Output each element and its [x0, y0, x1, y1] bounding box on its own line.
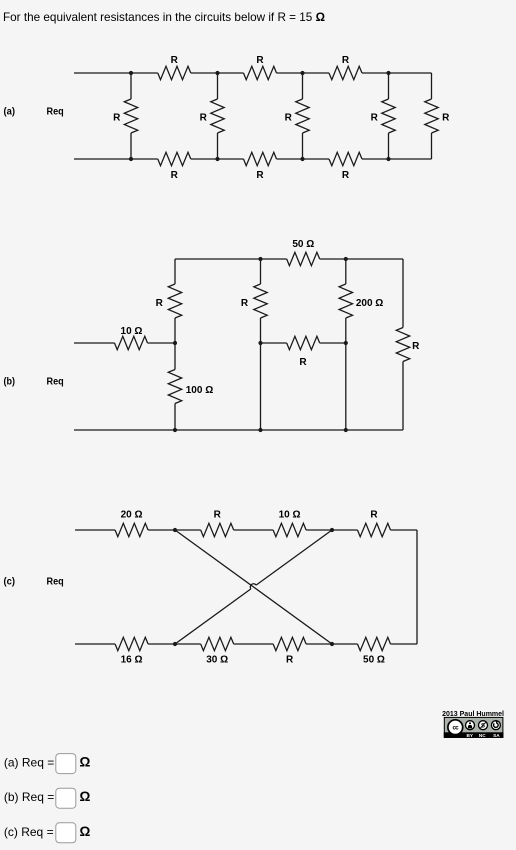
resistor R (a) vertical #4 — [382, 99, 395, 133]
svg-text:R: R — [370, 509, 378, 520]
node a top #4 — [386, 71, 390, 75]
node a top #1 — [129, 71, 133, 75]
CC license badge background — [444, 717, 503, 737]
wire b right R bottom stub — [402, 362, 404, 431]
resistor R (c) top #1 — [201, 523, 234, 536]
svg-text:10 Ω: 10 Ω — [279, 509, 301, 520]
wire b mid rail right — [320, 342, 346, 344]
svg-text:R: R — [299, 357, 307, 368]
resistor R (b) middle horizontal — [287, 336, 320, 349]
resistor 16ohm (c) bottom — [115, 637, 148, 650]
svg-text:(a): (a) — [4, 105, 16, 117]
svg-text:Req: Req — [47, 105, 64, 117]
svg-text:R: R — [412, 341, 420, 352]
resistor R (a) right vertical — [425, 99, 438, 133]
wire a bottom segment 1a — [131, 158, 158, 160]
wire a vertical bottom stub #3 — [302, 133, 304, 159]
svg-text:Ω: Ω — [80, 824, 91, 839]
svg-text:(b): (b) — [4, 375, 16, 387]
svg-text:50 Ω: 50 Ω — [363, 655, 385, 666]
resistor R (a) bottom #3 — [329, 152, 362, 165]
node b top x345 — [344, 257, 348, 261]
wire b 100ohm bottom stub — [174, 404, 176, 431]
wire a vertical bottom stub #2 — [217, 133, 219, 159]
wire b mid rail left — [261, 342, 287, 344]
wire a bottom segment 3a — [303, 158, 330, 160]
svg-text:NC: NC — [479, 733, 486, 738]
svg-text:R: R — [342, 170, 350, 181]
node c top right — [330, 528, 334, 532]
wire a vertical top stub #3 — [302, 73, 304, 99]
NC icon circle — [479, 721, 488, 730]
svg-text:Ω: Ω — [80, 789, 91, 804]
svg-text:R: R — [371, 113, 379, 124]
svg-text:R: R — [171, 170, 179, 181]
resistor R (a) bottom #1 — [158, 152, 191, 165]
wire a vertical top stub #4 — [388, 73, 390, 99]
wire a top segment 2b — [277, 72, 303, 74]
CC badge black strip — [444, 732, 504, 738]
node b top x260 — [258, 257, 262, 261]
svg-text:100 Ω: 100 Ω — [186, 385, 213, 396]
SA icon circle — [491, 721, 500, 730]
svg-text:R: R — [241, 298, 249, 309]
wire c crossover hop — [250, 584, 256, 589]
wire b top rail right — [320, 258, 403, 260]
wire c diagonal descending — [175, 530, 332, 644]
svg-text:Req: Req — [47, 375, 64, 387]
wire b column x345 to bottom — [345, 343, 347, 430]
wire c top seg3 — [234, 529, 273, 531]
BY icon circle — [466, 721, 475, 730]
wire b vert R2 bottom stub — [260, 318, 262, 343]
wire c bottom seg3 — [234, 643, 273, 645]
wire b bottom rail — [74, 429, 403, 431]
wire a vertical bottom stub #1 — [130, 133, 132, 159]
resistor R (a) vertical #2 — [211, 99, 224, 133]
resistor 50ohm (c) bottom — [358, 637, 391, 650]
resistor 10ohm (b) — [115, 336, 148, 349]
svg-text:30 Ω: 30 Ω — [206, 655, 228, 666]
SA icon arrow — [494, 723, 499, 728]
wire b vert R2 top stub — [260, 259, 262, 284]
wire c diagonal ascending upper part — [256, 530, 332, 585]
wire b 200ohm bottom stub — [345, 318, 347, 343]
svg-text:R: R — [256, 170, 264, 181]
node b bottom x175 — [173, 428, 177, 432]
wire c diagonal ascending lower part — [175, 589, 251, 644]
svg-text:10 Ω: 10 Ω — [121, 326, 143, 337]
node a bottom #2 — [215, 157, 219, 161]
wire a bottom-right segment — [389, 158, 432, 160]
resistor R (b) right vertical — [396, 328, 409, 362]
wire a top segment 3a — [303, 72, 330, 74]
wire c top seg4 — [306, 529, 357, 531]
svg-text:BY: BY — [467, 733, 474, 738]
resistor R (b) #2 vertical — [254, 284, 267, 318]
wire a top segment 3b — [362, 72, 389, 74]
resistor 100ohm (b) — [168, 370, 181, 404]
resistor R (b) #1 vertical — [168, 284, 181, 318]
BY icon person — [469, 722, 471, 724]
svg-text:R: R — [113, 113, 121, 124]
node b bottom x260 — [258, 428, 262, 432]
wire c right vertical — [416, 530, 418, 644]
node a bottom #3 — [300, 157, 304, 161]
answer input box (b) — [56, 788, 76, 808]
node a top #2 — [215, 71, 219, 75]
node a top #3 — [300, 71, 304, 75]
svg-text:50 Ω: 50 Ω — [292, 239, 314, 250]
resistor R (a) bottom #2 — [244, 152, 277, 165]
wire c bottom seg5 — [391, 643, 418, 645]
wire b left input lead — [74, 342, 115, 344]
svg-text:(c) Req =: (c) Req = — [4, 825, 54, 839]
resistor 10ohm (c) top — [273, 523, 306, 536]
answer input box (a) — [56, 754, 76, 774]
wire a bottom segment 3b — [362, 158, 389, 160]
wire c top lead — [75, 529, 115, 531]
svg-text:R: R — [214, 509, 222, 520]
node c top left — [173, 528, 177, 532]
wire b vert R1 bottom stub — [174, 318, 176, 343]
wire b right R top stub — [402, 259, 404, 328]
node b bottom x345 — [344, 428, 348, 432]
node c bottom left — [173, 642, 177, 646]
wire a bottom segment 1b — [191, 158, 218, 160]
CC logo circle — [448, 720, 463, 735]
svg-text:20 Ω: 20 Ω — [121, 509, 143, 520]
svg-text:Ω: Ω — [80, 755, 91, 770]
svg-text:(a) Req =: (a) Req = — [4, 756, 54, 770]
node a bottom #4 — [386, 157, 390, 161]
svg-text:R: R — [171, 55, 179, 66]
node b mid x175 — [173, 341, 177, 345]
resistor R (a) top #2 — [244, 66, 277, 79]
wire b 200ohm top stub — [345, 259, 347, 284]
wire a top-left lead — [74, 72, 131, 74]
wire a right vertical top stub — [431, 73, 433, 99]
wire a bottom-left lead — [74, 158, 131, 160]
resistor R (a) vertical #1 — [124, 99, 137, 133]
svg-text:R: R — [256, 55, 264, 66]
svg-text:200 Ω: 200 Ω — [356, 298, 383, 309]
wire c top seg2 — [148, 529, 201, 531]
wire c top seg5 — [391, 529, 418, 531]
wire a top-right segment — [389, 72, 432, 74]
wire a top segment 1b — [191, 72, 218, 74]
wire a top segment 2a — [218, 72, 244, 74]
wire c bottom seg2 — [148, 643, 201, 645]
wire a bottom segment 2b — [277, 158, 303, 160]
svg-text:R: R — [442, 113, 450, 124]
node b mid x260 — [258, 341, 262, 345]
svg-text:16 Ω: 16 Ω — [121, 655, 143, 666]
svg-text:Req: Req — [47, 575, 64, 587]
svg-text:(b) Req =: (b) Req = — [4, 790, 54, 804]
resistor 50ohm (b) top — [287, 252, 320, 265]
svg-text:R: R — [342, 55, 350, 66]
svg-text:(c): (c) — [4, 575, 16, 587]
wire c bottom seg4 — [306, 643, 357, 645]
resistor 30ohm (c) bottom — [201, 637, 234, 650]
wire a vertical top stub #1 — [130, 73, 132, 99]
svg-text:For the equivalent resistances: For the equivalent resistances in the ci… — [3, 10, 325, 24]
svg-text:R: R — [156, 298, 164, 309]
resistor R (a) vertical #3 — [296, 99, 309, 133]
wire a bottom segment 2a — [218, 158, 244, 160]
node a bottom #1 — [129, 157, 133, 161]
wire a top segment 1a — [131, 72, 158, 74]
svg-text:R: R — [285, 113, 293, 124]
answer input box (c) — [56, 823, 76, 843]
wire b vert R1 top stub — [174, 259, 176, 284]
wire b top rail left — [175, 258, 287, 260]
svg-text:R: R — [286, 655, 294, 666]
wire b 100ohm top stub — [174, 343, 176, 370]
wire c bottom lead — [75, 643, 115, 645]
resistor R (a) top #3 — [329, 66, 362, 79]
resistor R (c) top right — [358, 523, 391, 536]
resistor 20ohm (c) top — [115, 523, 148, 536]
wire a vertical top stub #2 — [217, 73, 219, 99]
node c bottom right — [330, 642, 334, 646]
wire a vertical bottom stub #4 — [388, 133, 390, 159]
resistor R (a) top #1 — [158, 66, 191, 79]
svg-text:SA: SA — [493, 733, 500, 738]
wire b input to node — [148, 342, 176, 344]
wire a right vertical bottom stub — [431, 133, 433, 159]
wire b column x260 to bottom — [260, 343, 262, 430]
svg-text:R: R — [200, 113, 208, 124]
node b mid x345 — [344, 341, 348, 345]
resistor R (c) bottom — [273, 637, 306, 650]
resistor 200ohm (b) — [339, 284, 352, 318]
